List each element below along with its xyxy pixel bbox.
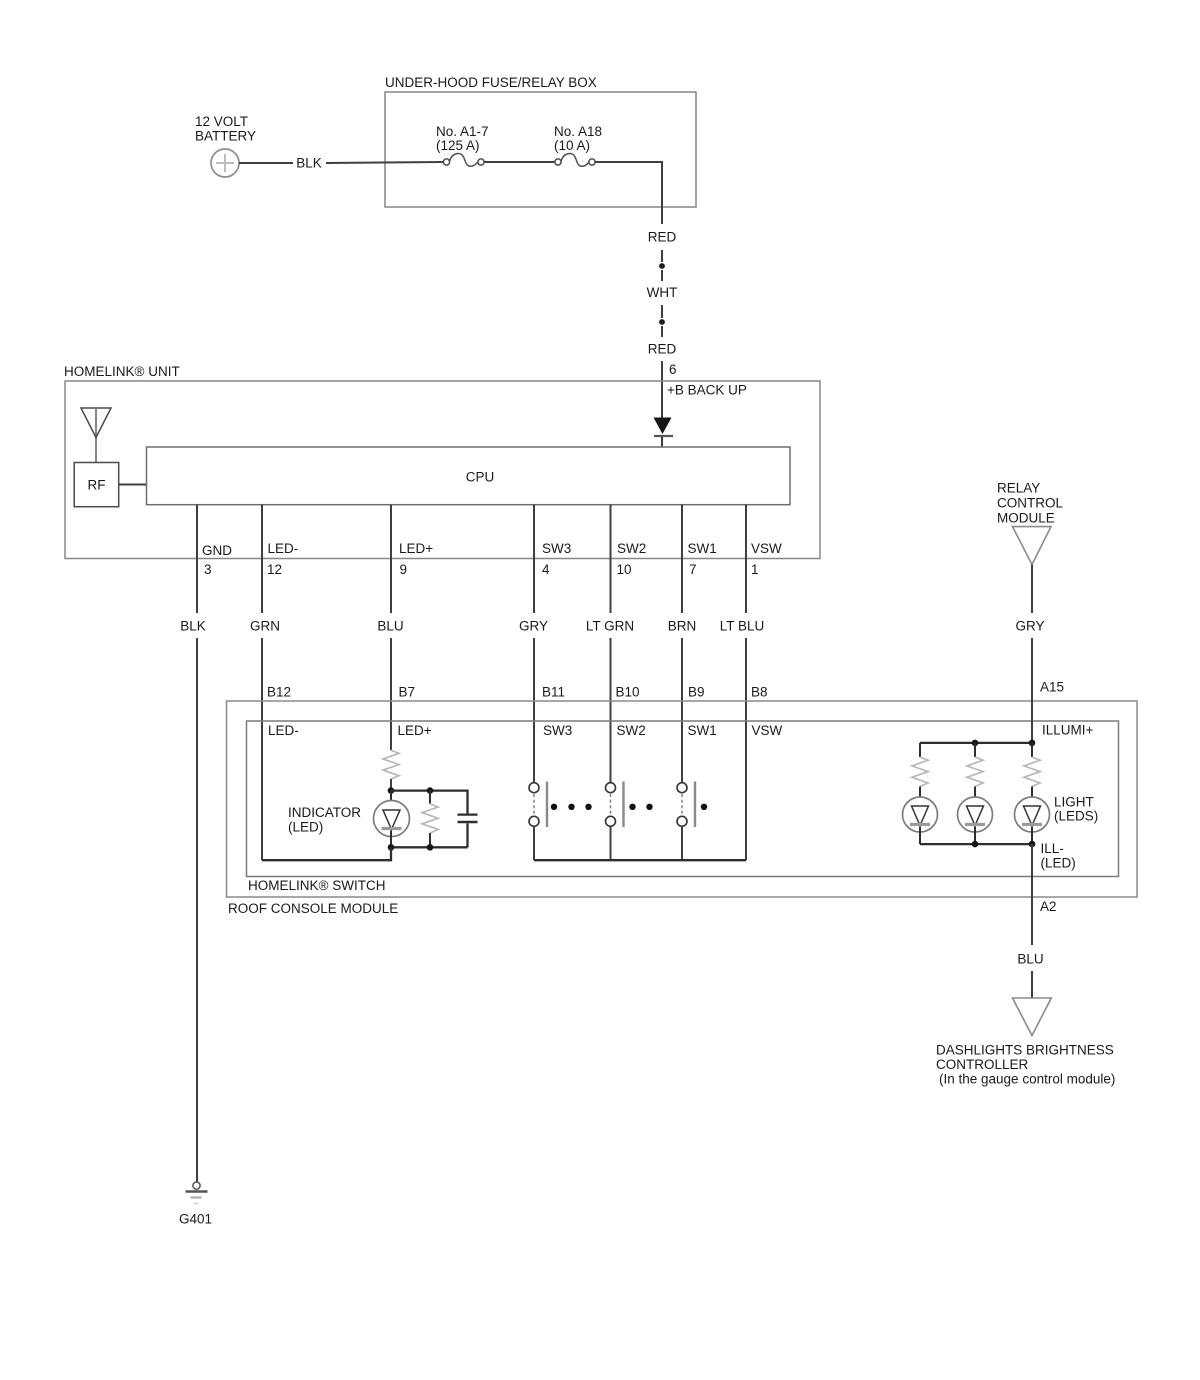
svg-text:LT BLU: LT BLU: [720, 619, 765, 634]
wire switch bottom rail to VSW: [534, 859, 746, 861]
svg-text:6: 6: [669, 362, 677, 377]
svg-text:RELAY: RELAY: [997, 481, 1040, 496]
pin GND wire to G401: [180, 505, 206, 1182]
svg-text:No. A18: No. A18: [554, 124, 602, 139]
svg-text:SW2: SW2: [617, 541, 646, 556]
svg-text:ILL-: ILL-: [1041, 841, 1064, 856]
diode D1 +B backup: [654, 418, 674, 448]
capacitor C1: [458, 815, 478, 848]
svg-text:4: 4: [542, 562, 550, 577]
svg-text:SW2: SW2: [617, 723, 646, 738]
svg-text:+B BACK UP: +B BACK UP: [667, 383, 747, 398]
svg-text:LED-: LED-: [268, 541, 299, 556]
wire RED segment: [648, 230, 677, 263]
svg-text:RF: RF: [88, 478, 106, 493]
svg-text:SW1: SW1: [688, 541, 717, 556]
pin label GND 3: [202, 543, 232, 577]
junction dot R2 top: [427, 787, 434, 794]
svg-text:12: 12: [267, 562, 282, 577]
wire top rail indicator: [391, 791, 468, 814]
svg-text:(LED): (LED): [288, 820, 323, 835]
switch SW3: [529, 782, 547, 861]
antenna: [81, 408, 111, 463]
svg-text:CONTROL: CONTROL: [997, 496, 1063, 511]
label LIGHT (LEDS): [1054, 795, 1098, 824]
switch SW2: [606, 782, 624, 861]
svg-text:DASHLIGHTS BRIGHTNESS: DASHLIGHTS BRIGHTNESS: [936, 1043, 1114, 1058]
battery 12 VOLT BATTERY: [195, 114, 256, 177]
svg-text:BLU: BLU: [1017, 952, 1043, 967]
fuse No. A18 (10 A): [554, 124, 602, 166]
junction splice dot: [659, 263, 665, 269]
junction splice dot: [659, 319, 665, 325]
junction dot ill- right: [1029, 841, 1036, 848]
light LED 1: [903, 797, 938, 844]
svg-text:UNDER-HOOD FUSE/RELAY BOX: UNDER-HOOD FUSE/RELAY BOX: [385, 75, 597, 90]
under-hood fuse/relay box: [385, 75, 696, 207]
RF module box: [74, 463, 119, 507]
svg-text:B8: B8: [751, 685, 768, 700]
svg-text:No. A1-7: No. A1-7: [436, 124, 489, 139]
svg-text:GND: GND: [202, 543, 232, 558]
wire R1 to junction: [390, 779, 392, 791]
light LED 2: [958, 797, 993, 844]
pin SW1 wire: [668, 505, 697, 783]
pin label LED+ 9: [399, 541, 433, 577]
pin LED+ wire: [377, 505, 403, 751]
svg-text:A15: A15: [1040, 680, 1064, 695]
junction dot LED+ top: [388, 787, 395, 794]
pin label VSW 1: [751, 541, 782, 577]
label INDICATOR (LED): [288, 805, 361, 835]
svg-text:BATTERY: BATTERY: [195, 129, 256, 144]
light branch 2 resistor: [967, 743, 983, 798]
dots SW2: [629, 804, 652, 810]
wire RF to CPU: [119, 484, 147, 486]
svg-text:GRY: GRY: [1015, 619, 1044, 634]
svg-text:MODULE: MODULE: [997, 511, 1055, 526]
svg-text:LIGHT: LIGHT: [1054, 795, 1094, 810]
svg-text:(LED): (LED): [1041, 856, 1076, 871]
svg-text:3: 3: [204, 562, 212, 577]
svg-text:LED-: LED-: [268, 723, 299, 738]
wire illumi bottom rail: [920, 843, 1032, 845]
roof console module outer box: [227, 701, 1138, 916]
svg-text:VSW: VSW: [752, 723, 783, 738]
svg-text:(10 A): (10 A): [554, 138, 590, 153]
svg-text:ROOF CONSOLE MODULE: ROOF CONSOLE MODULE: [228, 901, 398, 916]
svg-text:CPU: CPU: [466, 470, 495, 485]
junction dot R2 bottom: [427, 844, 434, 851]
light LED 3: [1015, 797, 1050, 844]
svg-text:ILLUMI+: ILLUMI+: [1042, 723, 1094, 738]
svg-text:9: 9: [400, 562, 408, 577]
junction dot ill- mid: [972, 841, 979, 848]
wire illumi top rail: [920, 742, 1032, 744]
wire BLU to dashlights: [1017, 844, 1043, 1001]
homelink unit box: [64, 364, 820, 559]
dots SW3: [551, 804, 592, 810]
svg-text:RED: RED: [648, 342, 677, 357]
resistor R1 indicator series: [383, 750, 399, 779]
junction dot illumi right: [1029, 740, 1036, 747]
wire BLK battery to fuse box: [239, 156, 443, 171]
pin label SW2 10: [617, 541, 647, 577]
dashlights brightness controller connector: [936, 998, 1115, 1087]
svg-text:A2: A2: [1040, 899, 1057, 914]
svg-text:12 VOLT: 12 VOLT: [195, 114, 248, 129]
wire between fuses: [484, 161, 555, 163]
svg-text:(In the gauge control module): (In the gauge control module): [939, 1072, 1115, 1087]
wire bottom rail indicator: [391, 846, 468, 848]
svg-text:GRN: GRN: [250, 619, 280, 634]
svg-text:B10: B10: [616, 685, 640, 700]
pin SW3 wire: [519, 505, 548, 783]
homelink switch inner box: [247, 721, 1119, 893]
svg-text:10: 10: [617, 562, 632, 577]
indicator LED D2: [374, 791, 410, 848]
pin label SW3 4: [542, 541, 571, 577]
svg-text:SW1: SW1: [688, 723, 717, 738]
svg-text:B7: B7: [399, 685, 416, 700]
fuse No. A1-7 (125 A): [436, 124, 489, 166]
CPU box U1: [147, 447, 791, 505]
light branch 1 resistor: [912, 743, 928, 798]
svg-text:LED+: LED+: [399, 541, 433, 556]
wire GRY relay to illumi: [1015, 565, 1044, 743]
svg-text:BLK: BLK: [296, 156, 322, 171]
junction dot LED bottom: [388, 844, 395, 851]
svg-text:BRN: BRN: [668, 619, 697, 634]
switch SW1: [677, 782, 695, 861]
junction dot illumi mid: [972, 740, 979, 747]
dot SW1: [701, 804, 707, 810]
pin label SW1 7: [688, 541, 717, 577]
light branch 3 resistor: [1024, 743, 1040, 798]
pin VSW wire: [720, 505, 765, 861]
wire RED segment to unit: [648, 326, 677, 418]
svg-text:SW3: SW3: [543, 723, 572, 738]
svg-text:WHT: WHT: [647, 285, 678, 300]
svg-text:INDICATOR: INDICATOR: [288, 805, 361, 820]
ground G401: [179, 1182, 212, 1227]
pin LED- wire: [250, 505, 280, 861]
svg-text:SW3: SW3: [542, 541, 571, 556]
svg-text:G401: G401: [179, 1212, 212, 1227]
svg-text:GRY: GRY: [519, 619, 548, 634]
node label ILL- (LED): [1041, 841, 1076, 871]
svg-text:HOMELINK® UNIT: HOMELINK® UNIT: [64, 364, 180, 379]
svg-text:BLK: BLK: [180, 619, 206, 634]
svg-text:RED: RED: [648, 230, 677, 245]
wire WHT segment: [647, 270, 678, 318]
svg-text:B11: B11: [542, 685, 565, 700]
svg-text:BLU: BLU: [377, 619, 403, 634]
wire fuse A18 to corner and down: [595, 162, 662, 224]
svg-text:(LEDS): (LEDS): [1054, 809, 1098, 824]
svg-text:B9: B9: [688, 685, 705, 700]
svg-text:CONTROLLER: CONTROLLER: [936, 1057, 1029, 1072]
svg-text:LED+: LED+: [398, 723, 432, 738]
svg-text:7: 7: [689, 562, 697, 577]
svg-text:B12: B12: [267, 685, 291, 700]
svg-text:LT GRN: LT GRN: [586, 619, 634, 634]
svg-text:VSW: VSW: [751, 541, 782, 556]
wire LED- return rail: [262, 847, 391, 860]
svg-text:HOMELINK® SWITCH: HOMELINK® SWITCH: [248, 878, 385, 893]
relay control module connector: [997, 481, 1063, 565]
svg-text:(125 A): (125 A): [436, 138, 480, 153]
pin label LED- 12: [267, 541, 298, 577]
pin SW2 wire: [586, 505, 634, 783]
svg-text:1: 1: [751, 562, 759, 577]
resistor R2 indicator parallel: [422, 791, 438, 848]
